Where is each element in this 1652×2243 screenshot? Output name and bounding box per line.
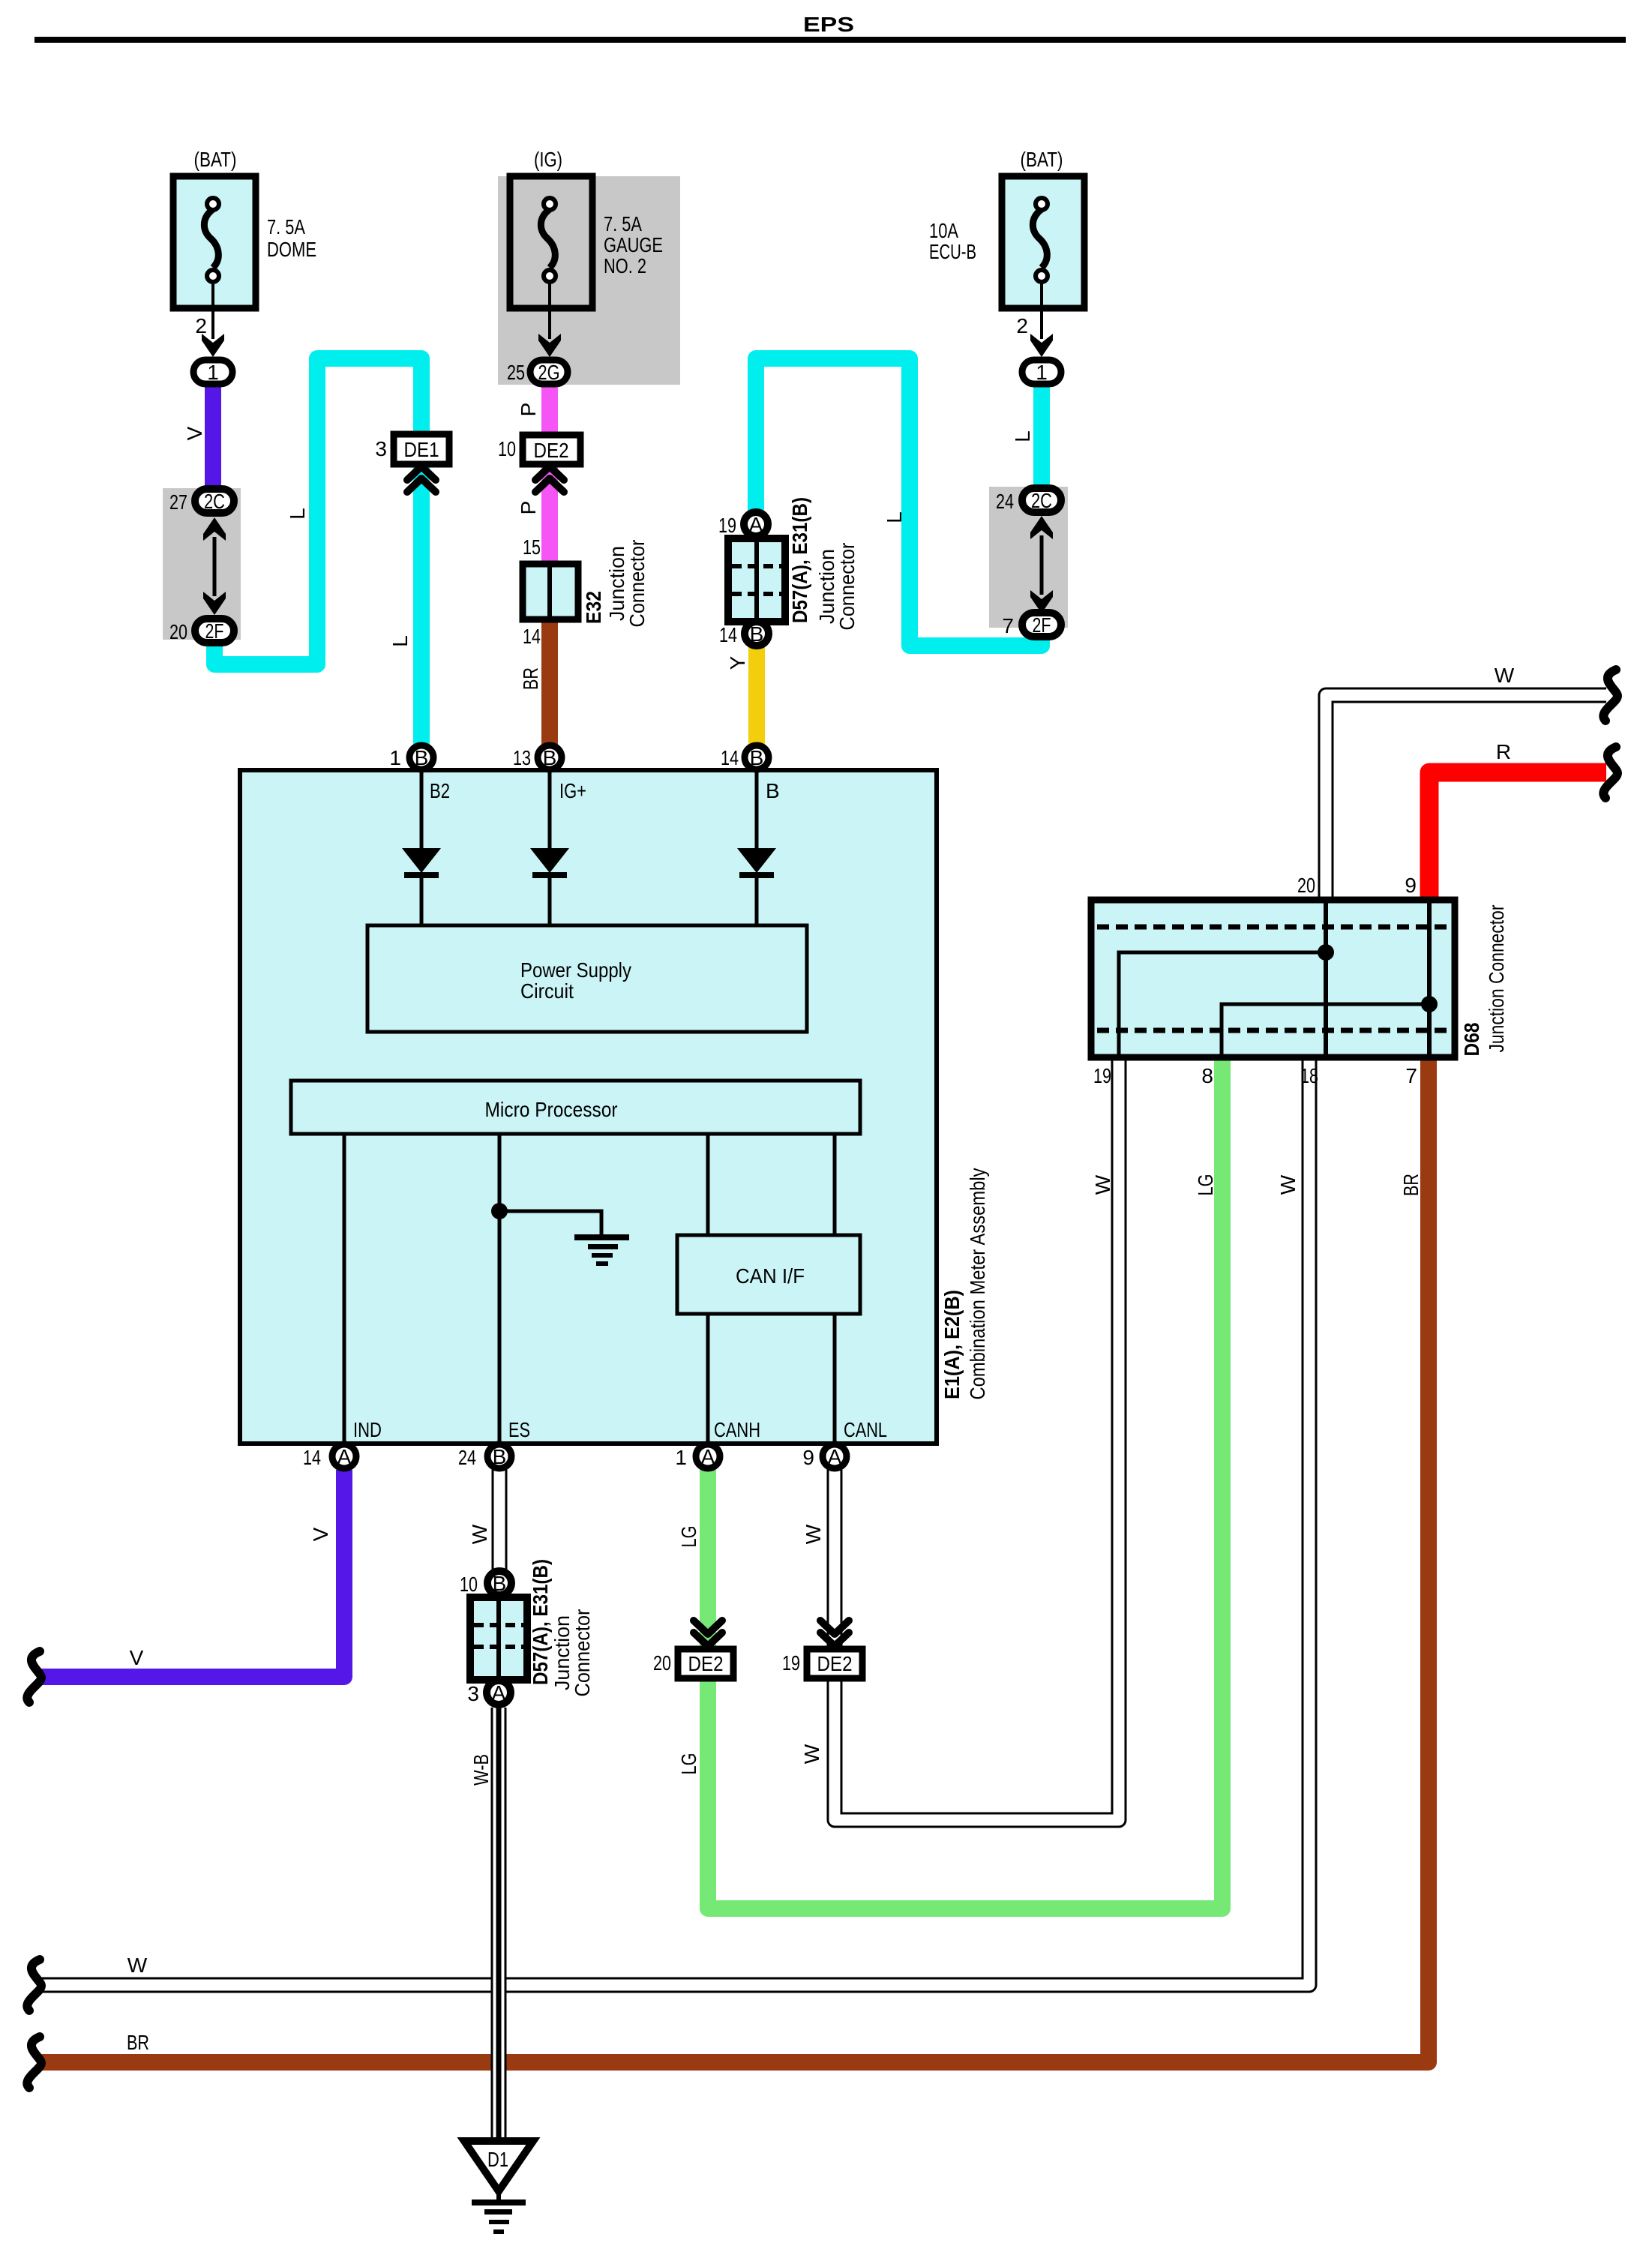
svg-text:B: B bbox=[415, 746, 429, 769]
svg-text:7. 5A: 7. 5A bbox=[604, 212, 642, 235]
svg-text:A: A bbox=[492, 1681, 506, 1705]
svg-text:24: 24 bbox=[996, 490, 1014, 513]
svg-text:DE2: DE2 bbox=[817, 1652, 853, 1675]
D68 pin20-pin18 through line bbox=[1324, 903, 1328, 1054]
svg-text:W: W bbox=[802, 1524, 825, 1544]
svg-text:2F: 2F bbox=[1033, 613, 1051, 637]
pin B lead bbox=[755, 770, 759, 848]
wire BR E32 to meter pin 13 B bbox=[541, 618, 558, 746]
svg-text:2: 2 bbox=[1016, 314, 1028, 337]
wire V IND to left edge bbox=[38, 1470, 344, 1677]
svg-text:Combination Meter Assembly: Combination Meter Assembly bbox=[966, 1168, 989, 1400]
diode under B bbox=[737, 848, 776, 873]
svg-text:DE2: DE2 bbox=[688, 1652, 724, 1675]
wire R D68 pin 9 to right edge bbox=[1429, 772, 1606, 898]
svg-text:Circuit: Circuit bbox=[520, 979, 574, 1003]
wire L (cyan) 2F to DE1 bbox=[214, 358, 421, 664]
svg-text:IND: IND bbox=[353, 1418, 382, 1441]
svg-text:27: 27 bbox=[169, 490, 187, 514]
wire BR D68 pin 7 to left edge bbox=[38, 1059, 1429, 2062]
wire L (cyan) 2F right to D57 junction A bbox=[756, 358, 1042, 646]
svg-text:D1: D1 bbox=[487, 2148, 508, 2171]
svg-text:24: 24 bbox=[458, 1446, 476, 1469]
svg-text:LG: LG bbox=[677, 1526, 700, 1548]
svg-text:P: P bbox=[517, 501, 540, 515]
svg-text:(BAT): (BAT) bbox=[194, 148, 237, 171]
svg-text:(BAT): (BAT) bbox=[1021, 148, 1063, 171]
svg-text:W: W bbox=[127, 1954, 148, 1977]
svg-text:14: 14 bbox=[303, 1446, 321, 1469]
connector DE2 pin 19 (CANL) bbox=[820, 1621, 849, 1634]
continuation curl W right bbox=[1603, 670, 1618, 721]
svg-text:2F: 2F bbox=[205, 619, 224, 643]
svg-text:1: 1 bbox=[207, 361, 219, 384]
svg-text:CANL: CANL bbox=[844, 1418, 887, 1441]
svg-text:13: 13 bbox=[513, 746, 531, 769]
svg-text:14: 14 bbox=[721, 746, 739, 769]
svg-text:IG+: IG+ bbox=[559, 779, 586, 802]
svg-text:D57(A), E31(B): D57(A), E31(B) bbox=[788, 497, 811, 623]
wire W CANL to DE2 and D68 pin 19 bbox=[835, 1059, 1119, 1820]
svg-text:14: 14 bbox=[523, 625, 541, 648]
wire Y D57 junction B to meter pin 14 B bbox=[748, 647, 765, 746]
wire W-B D57 junction A to ground D1 bbox=[491, 1708, 507, 2142]
svg-text:EPS: EPS bbox=[803, 13, 854, 36]
svg-text:DE2: DE2 bbox=[534, 439, 569, 462]
D68 pin9-pin7 through line bbox=[1427, 903, 1432, 1054]
gray panel connector 2C/2F left bbox=[163, 488, 241, 640]
svg-text:15: 15 bbox=[523, 535, 541, 559]
svg-text:Connector: Connector bbox=[625, 540, 649, 628]
svg-text:20: 20 bbox=[169, 620, 187, 643]
svg-text:L: L bbox=[1011, 430, 1034, 442]
svg-text:ECU-B: ECU-B bbox=[929, 240, 976, 263]
svg-text:(IG): (IG) bbox=[534, 148, 562, 171]
svg-text:1: 1 bbox=[675, 1446, 687, 1469]
wire P fuse GAUGE to DE2 bbox=[541, 385, 558, 437]
svg-text:B: B bbox=[750, 622, 764, 646]
svg-text:V: V bbox=[309, 1527, 332, 1541]
D68 dashed bus bottom bbox=[1097, 1028, 1449, 1033]
svg-text:Junction Connector: Junction Connector bbox=[1485, 905, 1508, 1053]
svg-text:E32: E32 bbox=[582, 591, 605, 624]
svg-text:Y: Y bbox=[726, 655, 749, 670]
svg-text:19: 19 bbox=[718, 514, 736, 537]
wire L (cyan) ECU-B fuse to 2C right bbox=[1033, 385, 1050, 487]
svg-text:2C: 2C bbox=[204, 490, 225, 513]
wire P DE2 to E32 bbox=[541, 464, 558, 565]
gray panel behind GAUGE fuse bbox=[498, 176, 680, 385]
svg-text:A: A bbox=[749, 513, 763, 536]
connector DE2 pin 20 (CANH) bbox=[694, 1621, 722, 1634]
svg-text:A: A bbox=[701, 1445, 715, 1468]
svg-text:7: 7 bbox=[1002, 614, 1014, 637]
svg-text:B: B bbox=[750, 746, 764, 769]
svg-text:25: 25 bbox=[507, 361, 525, 384]
diode under IG+ bbox=[530, 848, 569, 873]
svg-text:W: W bbox=[800, 1744, 823, 1764]
svg-text:ES: ES bbox=[508, 1418, 530, 1441]
continuation curl BR left bbox=[27, 2037, 41, 2088]
wire W D68 pin 18 to left edge bbox=[38, 1059, 1309, 1985]
D68 pin19 internal wire bbox=[1119, 952, 1323, 1054]
svg-text:9: 9 bbox=[1405, 874, 1417, 897]
wire ES to ground bbox=[499, 1211, 601, 1237]
D68 junction dot pin19-pin20 bbox=[1318, 944, 1334, 961]
svg-text:10: 10 bbox=[460, 1573, 478, 1596]
svg-text:Micro Processor: Micro Processor bbox=[485, 1098, 618, 1121]
wire W D68 pin 20 to right edge bbox=[1326, 695, 1606, 898]
svg-text:2G: 2G bbox=[538, 361, 560, 384]
svg-text:10A: 10A bbox=[929, 219, 958, 242]
svg-text:7. 5A: 7. 5A bbox=[267, 215, 305, 238]
top rule bbox=[34, 37, 1626, 43]
svg-text:LG: LG bbox=[1194, 1174, 1217, 1196]
svg-text:L: L bbox=[883, 511, 906, 523]
svg-text:W: W bbox=[1276, 1174, 1300, 1195]
continuation curl R right bbox=[1603, 747, 1618, 798]
svg-text:8: 8 bbox=[1201, 1064, 1213, 1087]
junction connector D68 box bbox=[1091, 900, 1455, 1057]
ES ground branch junction dot bbox=[491, 1203, 508, 1219]
connector oval 25 2G bbox=[530, 360, 568, 384]
ES internal line bbox=[498, 1134, 502, 1441]
svg-text:A: A bbox=[337, 1445, 352, 1468]
svg-text:9: 9 bbox=[802, 1446, 814, 1469]
svg-text:1: 1 bbox=[389, 746, 401, 769]
svg-text:LG: LG bbox=[677, 1753, 700, 1775]
svg-text:CANH: CANH bbox=[714, 1418, 760, 1441]
pass-through arrows 2C-2F bbox=[203, 517, 226, 541]
continuation curl V bbox=[27, 1651, 41, 1702]
svg-text:20: 20 bbox=[1297, 874, 1315, 897]
CAN I/F box bbox=[677, 1235, 860, 1314]
svg-text:18: 18 bbox=[1300, 1064, 1318, 1087]
CANH internal line bbox=[706, 1134, 710, 1235]
svg-text:BR: BR bbox=[519, 667, 542, 690]
svg-text:DOME: DOME bbox=[267, 238, 316, 261]
svg-text:2: 2 bbox=[195, 314, 207, 337]
micro processor box bbox=[291, 1081, 860, 1134]
combination meter assembly box E1(A), E2(B) bbox=[240, 770, 937, 1444]
pin IG+ lead bbox=[548, 770, 552, 848]
svg-text:7: 7 bbox=[1405, 1064, 1417, 1087]
IND internal line bbox=[343, 1134, 346, 1441]
svg-text:W: W bbox=[1495, 664, 1515, 687]
svg-text:V: V bbox=[130, 1646, 144, 1669]
D68 dashed bus top bbox=[1097, 925, 1449, 930]
svg-text:B: B bbox=[543, 746, 557, 769]
wire W ES to D57 junction B bbox=[492, 1470, 508, 1570]
D68 pin8 internal wire bbox=[1222, 1004, 1426, 1054]
svg-text:D68: D68 bbox=[1460, 1023, 1483, 1057]
connector oval 1 (DOME) bbox=[193, 360, 232, 384]
ground D1 bbox=[464, 2141, 533, 2191]
svg-text:W: W bbox=[468, 1524, 491, 1544]
svg-text:NO. 2: NO. 2 bbox=[604, 254, 646, 277]
svg-text:19: 19 bbox=[782, 1651, 800, 1675]
svg-text:R: R bbox=[1496, 740, 1511, 763]
svg-text:B: B bbox=[493, 1572, 507, 1595]
power supply circuit box bbox=[367, 925, 807, 1032]
svg-text:E1(A), E2(B): E1(A), E2(B) bbox=[940, 1290, 964, 1399]
svg-text:W-B: W-B bbox=[469, 1754, 493, 1786]
svg-text:L: L bbox=[388, 635, 412, 647]
wire V fuse DOME to 2C bbox=[205, 384, 221, 489]
svg-text:B2: B2 bbox=[430, 779, 450, 802]
wire LG CANH to DE2 and D68 pin 8 bbox=[708, 1059, 1222, 1909]
svg-text:V: V bbox=[183, 426, 206, 440]
svg-text:DE1: DE1 bbox=[404, 438, 439, 461]
CANL internal line bbox=[833, 1134, 837, 1235]
svg-text:B: B bbox=[493, 1445, 507, 1468]
svg-text:GAUGE: GAUGE bbox=[604, 233, 663, 256]
svg-text:20: 20 bbox=[653, 1651, 671, 1675]
svg-text:P: P bbox=[517, 403, 540, 417]
pin B2 lead bbox=[420, 770, 424, 848]
gray panel connector 2C/2F right bbox=[989, 487, 1068, 628]
svg-text:BR: BR bbox=[127, 2031, 149, 2054]
svg-text:L: L bbox=[286, 508, 309, 520]
svg-text:BR: BR bbox=[1399, 1174, 1423, 1196]
D68 junction dot pin8-pin9 bbox=[1421, 996, 1438, 1012]
svg-text:1: 1 bbox=[1036, 361, 1048, 384]
svg-text:19: 19 bbox=[1093, 1064, 1111, 1087]
svg-text:Power Supply: Power Supply bbox=[520, 958, 631, 982]
svg-text:D57(A), E31(B): D57(A), E31(B) bbox=[529, 1559, 552, 1685]
svg-text:A: A bbox=[828, 1445, 842, 1468]
svg-text:3: 3 bbox=[467, 1682, 479, 1705]
internal ground symbol bbox=[574, 1234, 629, 1240]
svg-text:2C: 2C bbox=[1031, 489, 1052, 512]
continuation curl W left bbox=[27, 1960, 41, 2011]
svg-text:W: W bbox=[1091, 1174, 1114, 1195]
svg-text:CAN I/F: CAN I/F bbox=[736, 1264, 805, 1288]
svg-text:14: 14 bbox=[719, 623, 737, 646]
wire L (cyan) DE1 to meter pin 1 B bbox=[413, 464, 430, 746]
svg-text:10: 10 bbox=[498, 437, 516, 460]
svg-text:B: B bbox=[766, 779, 780, 802]
svg-text:3: 3 bbox=[375, 437, 387, 460]
svg-text:Connector: Connector bbox=[571, 1609, 594, 1697]
connector oval 1 (ECU-B) bbox=[1022, 360, 1061, 384]
svg-text:Connector: Connector bbox=[835, 543, 859, 631]
diode under B2 bbox=[402, 848, 441, 873]
